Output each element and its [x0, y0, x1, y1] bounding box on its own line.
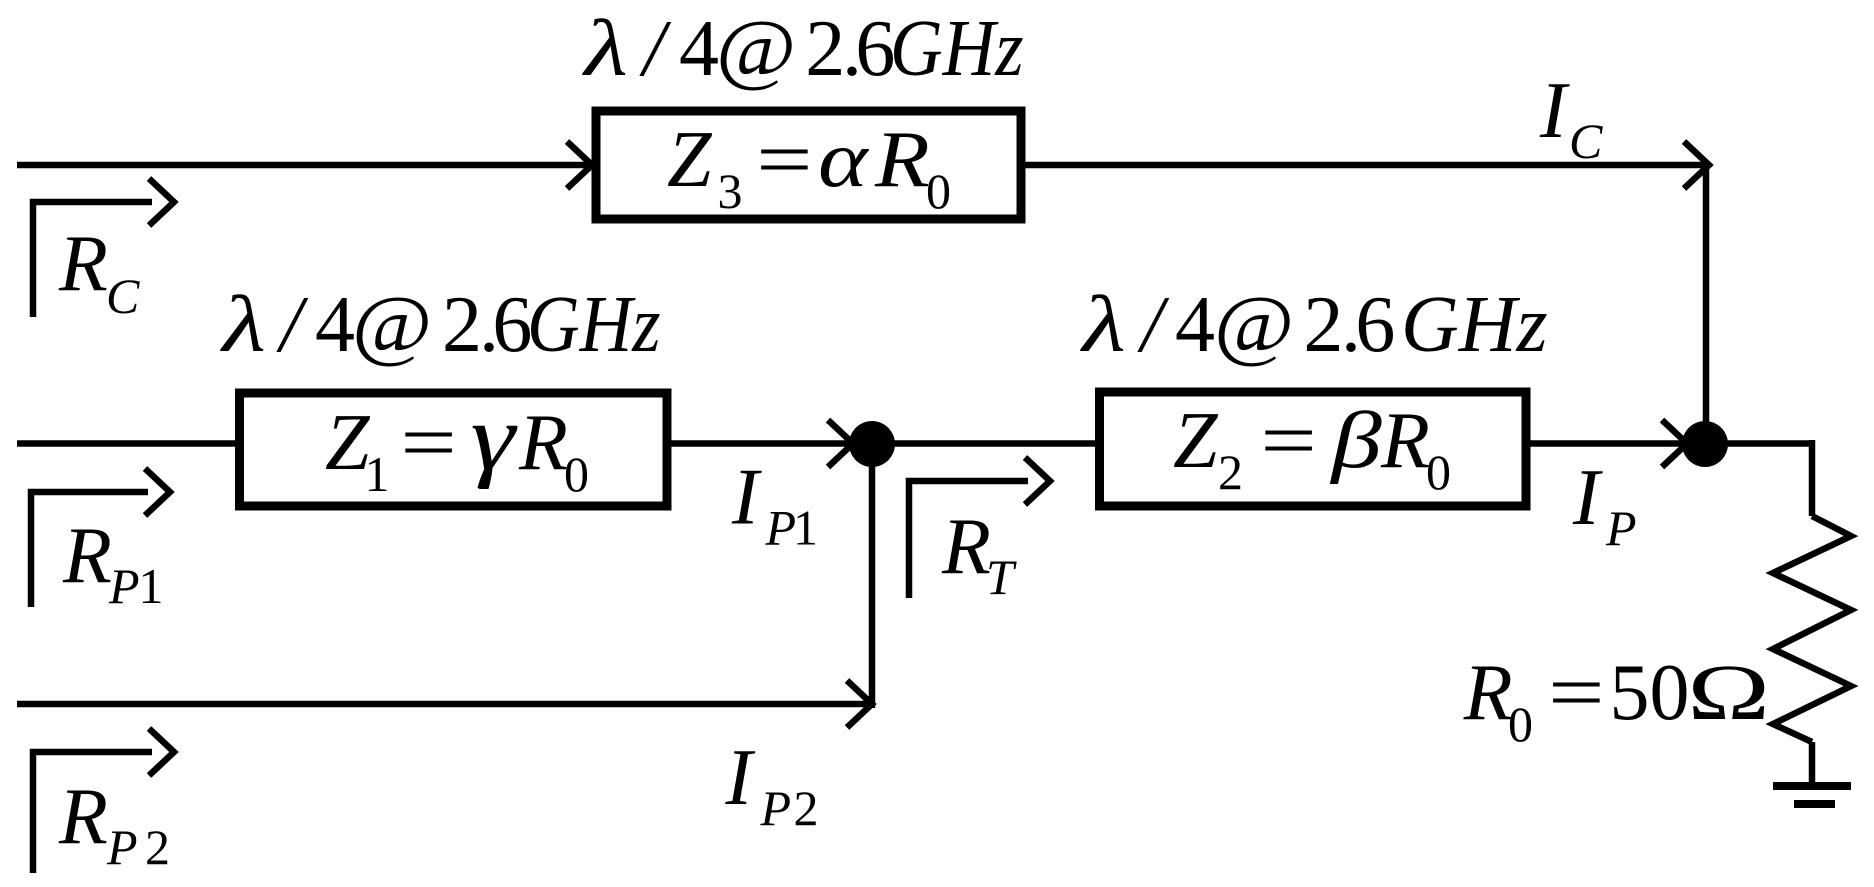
label I_P1: [731, 454, 818, 556]
label I_P2: [725, 734, 819, 836]
svg-text:@: @: [716, 4, 796, 93]
svg-text:2: 2: [442, 281, 482, 369]
svg-text:C: C: [106, 268, 140, 324]
svg-text:2: 2: [1303, 281, 1343, 369]
arrowhead into node T: [828, 420, 853, 467]
svg-text:0: 0: [564, 446, 589, 502]
label I_C: [1539, 67, 1603, 169]
wire: resistor to ground: [1809, 742, 1816, 786]
svg-text:4: 4: [315, 281, 355, 369]
svg-text:P: P: [106, 819, 138, 875]
svg-text:R: R: [58, 773, 108, 861]
R_P1 reference corner arrow: [31, 492, 148, 607]
label lambda/4 @ 2.6GHz above Z1: [219, 279, 660, 369]
svg-text:1: 1: [365, 446, 390, 502]
label R_P2: [58, 773, 170, 875]
R_C reference corner arrow: [33, 202, 152, 317]
svg-text:R: R: [58, 220, 108, 308]
svg-text:I: I: [1572, 454, 1603, 542]
wire: Z1 to node T: [665, 440, 853, 447]
svg-text:R: R: [518, 399, 568, 487]
svg-text:C: C: [1569, 113, 1603, 169]
label R_P1: [62, 512, 164, 614]
wire: down into resistor R0: [1809, 440, 1816, 516]
wire: Z3 to top-right corner: [1023, 162, 1709, 169]
svg-text:1: 1: [793, 500, 818, 556]
svg-text:P: P: [1605, 500, 1637, 556]
svg-text:λ: λ: [1079, 279, 1126, 368]
label R_C: [58, 220, 140, 324]
svg-text:R: R: [941, 503, 991, 591]
wire: node T down to bottom junction: [869, 444, 876, 709]
svg-text:R: R: [1463, 649, 1513, 737]
svg-text:R: R: [62, 512, 112, 600]
junction dot node T: [849, 421, 895, 467]
label I_P: [1572, 454, 1637, 556]
svg-text:4: 4: [1175, 281, 1215, 369]
svg-text:R: R: [874, 115, 930, 204]
transmission line box Z1: [240, 393, 668, 506]
label lambda/4 @ 2.6GHz above Z3: [581, 3, 1023, 93]
svg-text:=: =: [1542, 647, 1609, 736]
svg-text:λ: λ: [219, 279, 266, 368]
svg-text:=: =: [394, 397, 461, 486]
svg-text:Ω: Ω: [1687, 648, 1770, 736]
R_T reference corner arrow: [909, 481, 1028, 598]
svg-text:6: 6: [1355, 281, 1395, 369]
svg-text:GHz: GHz: [527, 280, 661, 369]
arrowhead at top-right corner (I_C): [1684, 142, 1709, 189]
svg-text:4: 4: [679, 5, 719, 93]
wire: node P to resistor corner: [1705, 440, 1812, 447]
svg-text:@: @: [1214, 280, 1294, 369]
label lambda/4 @ 2.6GHz above Z2: [1079, 279, 1548, 369]
resistor R0 zigzag: [1773, 516, 1851, 742]
svg-text:50: 50: [1610, 649, 1690, 737]
svg-text:Z: Z: [1173, 397, 1219, 485]
wire: bottom feed (I_P2): [17, 701, 870, 708]
svg-text:2: 2: [794, 780, 819, 836]
svg-text:0: 0: [1426, 444, 1451, 500]
svg-text:Z: Z: [667, 116, 713, 204]
wire: top-left feed into Z3: [17, 162, 594, 169]
formula Z3 = alpha R0: [667, 114, 951, 219]
svg-text:=: =: [750, 114, 817, 203]
svg-text:=: =: [1254, 395, 1321, 484]
svg-text:P: P: [108, 558, 140, 614]
wire: node T to Z2: [872, 440, 1102, 447]
arrowhead at bottom junction: [847, 681, 872, 728]
ground: [1773, 782, 1851, 790]
svg-text:1: 1: [139, 558, 164, 614]
label R0 = 50 Ohm: [1463, 647, 1770, 752]
svg-text:R: R: [1380, 397, 1430, 485]
svg-text:γ: γ: [471, 386, 519, 490]
formula Z2 = beta R0: [1173, 395, 1451, 500]
svg-text:I: I: [1539, 67, 1570, 155]
svg-text:α: α: [818, 115, 870, 204]
svg-text:3: 3: [718, 163, 743, 219]
label R_T: [941, 503, 1017, 605]
svg-text:GHz: GHz: [890, 4, 1024, 93]
svg-text:T: T: [986, 549, 1017, 605]
svg-text:GHz: GHz: [1401, 281, 1548, 369]
svg-text:P: P: [760, 780, 792, 836]
svg-text:2: 2: [1218, 444, 1243, 500]
svg-text:β: β: [1329, 396, 1382, 485]
arrowhead into node P: [1662, 420, 1687, 467]
wire: vertical down from corner to node P: [1703, 165, 1710, 444]
wire: mid-left feed into Z1: [17, 440, 242, 447]
wire: Z2 to node P: [1524, 440, 1687, 447]
svg-text:P: P: [765, 500, 797, 556]
svg-text:@: @: [352, 280, 432, 369]
transmission line box Z3: [596, 111, 1021, 219]
svg-text:2: 2: [805, 5, 845, 93]
R_P2 reference corner arrow: [33, 752, 152, 873]
svg-text:0: 0: [1508, 696, 1533, 752]
arrowhead into Z3: [567, 142, 592, 189]
junction dot node P: [1682, 421, 1728, 467]
svg-text:0: 0: [926, 163, 951, 219]
svg-text:2: 2: [145, 819, 170, 875]
transmission line box Z2: [1100, 392, 1527, 506]
svg-text:I: I: [725, 734, 756, 822]
svg-text:λ: λ: [581, 3, 628, 92]
svg-text:I: I: [731, 454, 762, 542]
formula Z1 = gamma R0: [325, 386, 589, 502]
